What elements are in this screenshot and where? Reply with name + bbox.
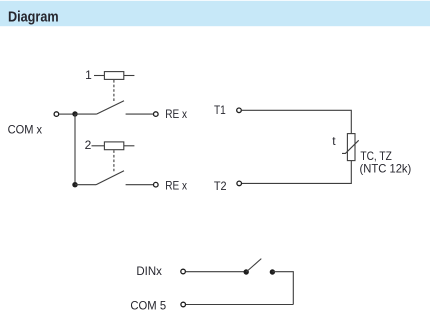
svg-text:COM x: COM x: [8, 123, 43, 137]
svg-text:2: 2: [85, 138, 92, 152]
terminal T1: [237, 108, 242, 113]
terminal COM x: [54, 112, 59, 117]
wire junction B to switch 2 pivot: [75, 184, 96, 186]
svg-text:1: 1: [85, 68, 92, 82]
svg-text:(NTC 12k): (NTC 12k): [360, 162, 412, 176]
svg-text:T2: T2: [214, 179, 227, 193]
dashed actuator link coil 1: [113, 80, 115, 102]
dashed actuator link coil 2: [113, 150, 115, 171]
bus wire junction A to junction B: [74, 114, 76, 185]
switch 2 arm: [96, 171, 124, 185]
terminal T2: [237, 181, 242, 186]
wire COM 5 run: [186, 304, 293, 306]
svg-text:RE x: RE x: [165, 107, 187, 121]
junction B: [72, 182, 77, 187]
wire switch 2 to RE x terminal: [126, 184, 154, 186]
terminal DINx: [181, 269, 186, 274]
wire DIN contact to corner: [272, 272, 293, 305]
switch 1 arm: [97, 101, 125, 114]
thermistor TC,TZ body: [347, 134, 355, 161]
svg-text:DINx: DINx: [136, 264, 162, 278]
wire switch 1 to RE x terminal: [126, 113, 154, 115]
svg-text:COM 5: COM 5: [130, 299, 166, 313]
wire T1 to thermistor: [242, 110, 352, 133]
terminal COM 5: [181, 302, 186, 307]
header bar: [0, 1, 430, 26]
svg-text:Diagram: Diagram: [8, 8, 59, 25]
terminal RE x (2): [154, 182, 159, 187]
wire thermistor to T2: [242, 161, 352, 184]
DIN switch pivot junction: [244, 269, 249, 274]
relay coil 1: [94, 72, 134, 80]
junction A: [72, 111, 77, 116]
svg-text:RE x: RE x: [165, 179, 187, 193]
svg-text:T1: T1: [214, 103, 226, 117]
terminal RE x (1): [154, 112, 159, 117]
wire junction to switch 1 pivot: [75, 113, 97, 115]
wire DINx to switch pivot: [186, 271, 247, 273]
relay coil 2: [92, 142, 135, 150]
wire COMx to junction: [59, 113, 75, 115]
svg-text:t: t: [332, 134, 336, 148]
DIN switch contact junction: [270, 269, 275, 274]
thermistor diagonal stroke: [342, 140, 359, 153]
DIN switch arm: [246, 259, 261, 272]
